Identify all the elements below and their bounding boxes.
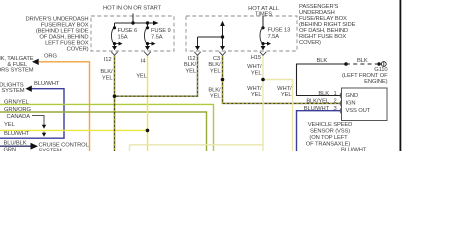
- svg-text:CANADA: CANADA: [7, 114, 31, 120]
- svg-text:YEL: YEL: [210, 68, 221, 74]
- svg-text:GND: GND: [346, 93, 359, 99]
- svg-text:FUSE 9: FUSE 9: [151, 28, 171, 34]
- svg-text:1: 1: [334, 91, 337, 97]
- svg-text:7.5A: 7.5A: [151, 34, 163, 40]
- svg-text:BLK: BLK: [357, 58, 368, 64]
- svg-text:GRN/ORG: GRN/ORG: [4, 107, 31, 113]
- svg-text:SYSTEM: SYSTEM: [1, 88, 24, 94]
- svg-text:BLK/: BLK/: [100, 69, 113, 75]
- svg-text:BLU/BLK: BLU/BLK: [4, 141, 27, 147]
- svg-text:YEL: YEL: [102, 76, 113, 82]
- svg-text:GRN/YEL: GRN/YEL: [4, 99, 30, 105]
- svg-text:ENGINE): ENGINE): [364, 79, 388, 85]
- svg-text:BLU/WHT: BLU/WHT: [4, 131, 30, 137]
- svg-text:FUSE 13: FUSE 13: [268, 28, 291, 34]
- svg-text:3: 3: [334, 106, 337, 112]
- svg-text:IGN: IGN: [346, 101, 356, 107]
- svg-text:COVER): COVER): [299, 40, 321, 46]
- svg-text:FUSE 6: FUSE 6: [118, 28, 138, 34]
- svg-text:VSS OUT: VSS OUT: [346, 108, 371, 114]
- svg-text:GRN: GRN: [4, 148, 17, 152]
- svg-text:YEL: YEL: [4, 122, 15, 128]
- svg-text:DOORS SYSTEM: DOORS SYSTEM: [0, 68, 34, 74]
- svg-text:COVER): COVER): [67, 47, 89, 53]
- svg-text:YEL: YEL: [251, 92, 262, 98]
- svg-text:2: 2: [334, 98, 337, 104]
- svg-text:BLK: BLK: [318, 91, 329, 97]
- svg-text:I12: I12: [104, 57, 112, 63]
- svg-text:BLU/WHT: BLU/WHT: [34, 81, 60, 87]
- svg-text:BLK: BLK: [317, 58, 328, 64]
- svg-text:CRUISE CONTROL: CRUISE CONTROL: [39, 142, 90, 148]
- svg-text:7.5A: 7.5A: [268, 34, 280, 40]
- svg-text:H15: H15: [251, 55, 261, 61]
- svg-text:BLU/WHT: BLU/WHT: [341, 148, 367, 152]
- svg-text:HOT IN ON OR START: HOT IN ON OR START: [103, 6, 162, 12]
- svg-text:BLU/WHT: BLU/WHT: [304, 106, 330, 112]
- svg-text:BLK/: BLK/: [208, 62, 221, 68]
- svg-text:YEL: YEL: [185, 68, 196, 74]
- svg-text:YEL: YEL: [210, 93, 221, 99]
- svg-text:YEL: YEL: [281, 92, 292, 98]
- svg-text:SYSTEM: SYSTEM: [39, 149, 62, 152]
- svg-text:SENSOR (VSS): SENSOR (VSS): [310, 129, 350, 135]
- svg-text:BLK/: BLK/: [184, 62, 197, 68]
- svg-text:WHT/: WHT/: [247, 64, 262, 70]
- svg-text:YEL: YEL: [136, 74, 147, 80]
- svg-text:BLK/YEL: BLK/YEL: [306, 98, 330, 104]
- svg-text:TIMES: TIMES: [255, 11, 272, 17]
- svg-text:YEL: YEL: [251, 71, 262, 77]
- svg-text:(ON TOP LEFT: (ON TOP LEFT: [309, 135, 348, 141]
- svg-text:15A: 15A: [118, 34, 128, 40]
- svg-text:VEHICLE SPEED: VEHICLE SPEED: [308, 122, 353, 128]
- svg-text:ORG: ORG: [44, 53, 57, 59]
